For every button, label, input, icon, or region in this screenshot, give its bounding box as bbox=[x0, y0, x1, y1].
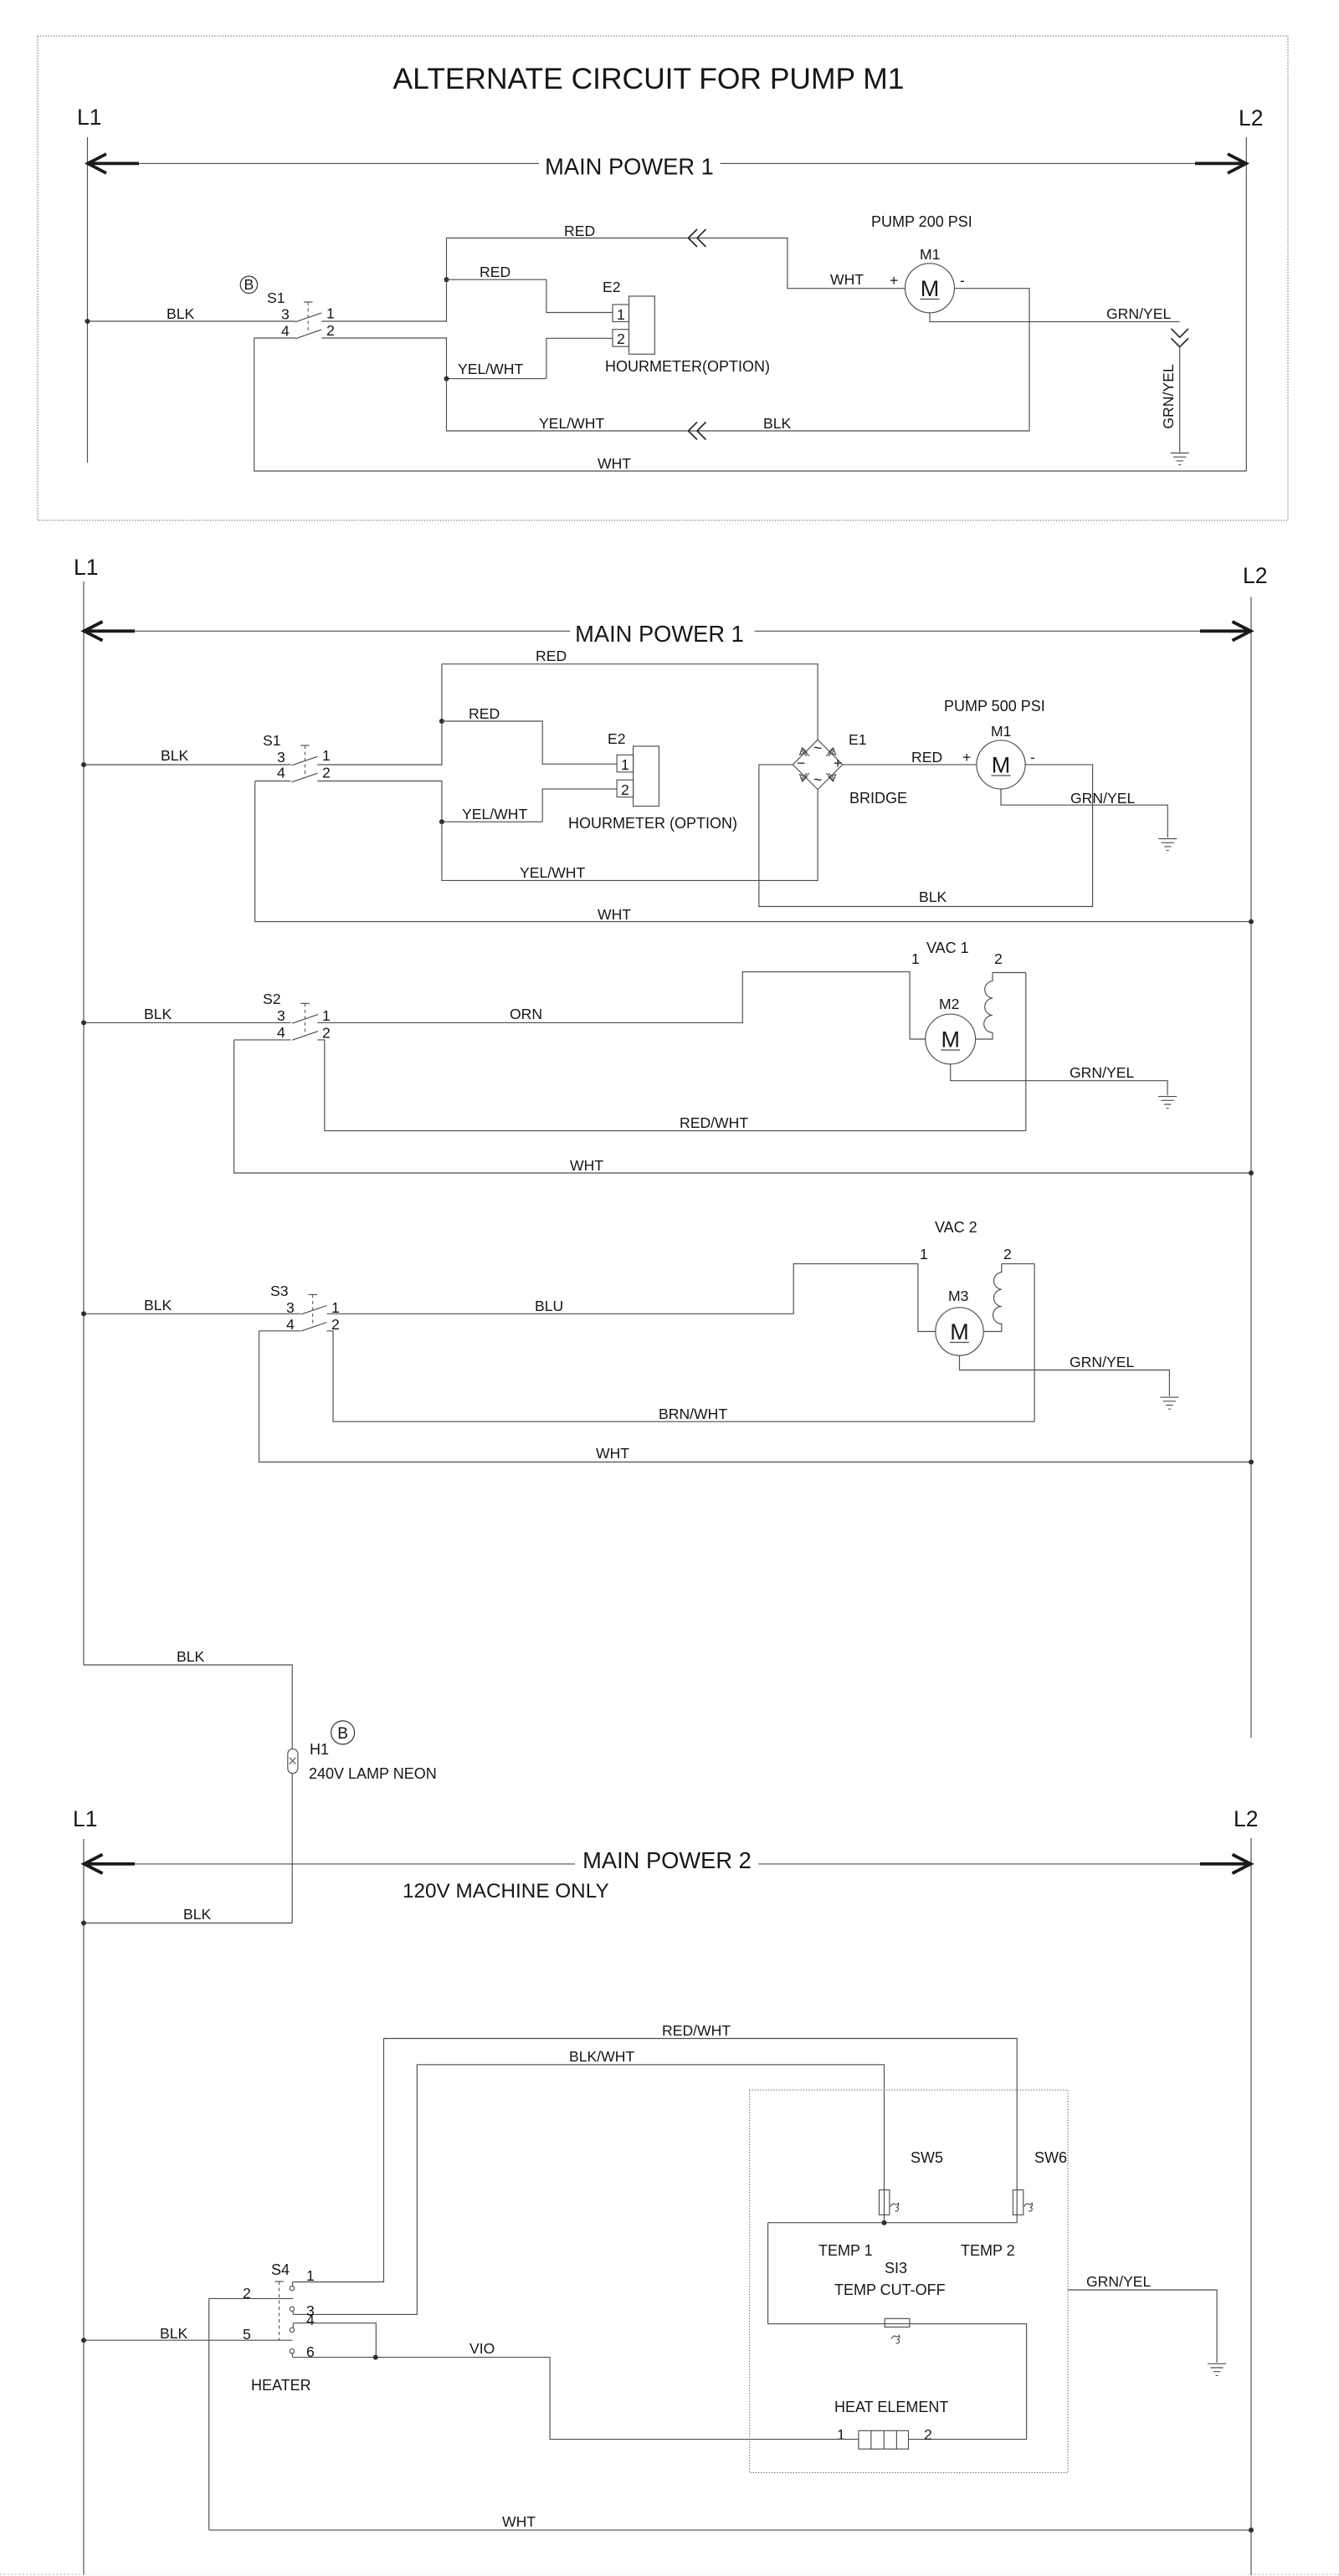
arrowhead right (top box main power) bbox=[1195, 161, 1246, 165]
wire S2 pin2 to RED/WHT run bbox=[317, 1040, 1026, 1131]
S4 contact 4 stub bbox=[292, 2323, 294, 2328]
wire left leg down to temp cut-off bbox=[768, 2223, 1027, 2440]
hourmeter E2 pin1 box (section 2) bbox=[617, 755, 634, 772]
svg-text:S3: S3 bbox=[270, 1283, 289, 1299]
wire S1 pin1 to riser (section 2) bbox=[317, 664, 442, 765]
svg-text:HEATER: HEATER bbox=[251, 2377, 311, 2394]
wire RED/WHT from S4 pin1 up and across to SW6 bbox=[293, 2039, 1018, 2282]
wire: MAIN POWER 1 arrow line (top box) bbox=[88, 162, 1247, 164]
fuse TEMP CUT-OFF body bbox=[885, 2318, 910, 2327]
wire WHT bottom run (VAC1) bbox=[234, 1040, 1251, 1173]
wire GRN/YEL drop to ground (top box) bbox=[1179, 347, 1181, 453]
svg-text:HEAT ELEMENT: HEAT ELEMENT bbox=[834, 2399, 948, 2415]
junction at L1 / BLK (section 2) bbox=[81, 762, 86, 767]
svg-text:E1: E1 bbox=[849, 731, 867, 748]
coil of M3 arcs bbox=[983, 1264, 1002, 1332]
svg-text:GRN/YEL: GRN/YEL bbox=[1086, 2273, 1151, 2290]
wire YEL/WHT lower run to bridge bottom (section 2) bbox=[442, 790, 818, 881]
S4 contact 6 stub bbox=[292, 2353, 294, 2358]
svg-text:ALTERNATE CIRCUIT FOR PUMP M1: ALTERNATE CIRCUIT FOR PUMP M1 bbox=[393, 62, 905, 95]
svg-text:M: M bbox=[992, 753, 1011, 778]
wire S1 pin1 to riser (top box) bbox=[321, 238, 446, 322]
wire: L2 bus vertical (sections 2-5) bbox=[1250, 597, 1252, 1739]
hourmeter E2 pin2 box (top box) bbox=[613, 330, 629, 347]
junction WHT / L2 (VAC1) bbox=[1249, 1170, 1254, 1175]
wire RED top run to motor plus (top box) bbox=[447, 238, 905, 289]
svg-text:240V LAMP NEON: 240V LAMP NEON bbox=[309, 1765, 437, 1782]
S2 link T-bar bbox=[300, 1002, 310, 1004]
svg-text:L2: L2 bbox=[1239, 105, 1263, 131]
svg-text:YEL/WHT: YEL/WHT bbox=[520, 864, 585, 881]
svg-text:SW5: SW5 bbox=[911, 2149, 943, 2166]
coil of M2 arcs bbox=[976, 973, 993, 1040]
bridge diode top-right bbox=[826, 748, 835, 756]
wire BLK from L1 to S1 pin3 (top box) bbox=[88, 320, 296, 322]
svg-text:1: 1 bbox=[326, 305, 335, 322]
svg-text:GRN/YEL: GRN/YEL bbox=[1070, 1064, 1134, 1081]
svg-text:YEL/WHT: YEL/WHT bbox=[458, 361, 523, 377]
svg-text:GRN/YEL: GRN/YEL bbox=[1070, 790, 1135, 807]
junction RED node (section 2) bbox=[439, 719, 444, 724]
svg-text:RED: RED bbox=[564, 223, 595, 239]
S3 link T-bar bbox=[309, 1293, 318, 1295]
svg-text:~: ~ bbox=[813, 740, 822, 756]
svg-text:M1: M1 bbox=[991, 723, 1011, 740]
wire: L1 bus vertical (top box) bbox=[87, 137, 89, 463]
wire left riser down to WHT bbox=[208, 2298, 210, 2530]
S2 blade 3-1 bbox=[292, 1015, 318, 1024]
circle B marker (lamp) bbox=[331, 1721, 355, 1744]
svg-text:WHT: WHT bbox=[596, 1445, 629, 1462]
S1 blade 3-1 (section 2) bbox=[292, 756, 318, 766]
svg-text:1: 1 bbox=[911, 950, 920, 967]
SW5 thermal squiggle bbox=[890, 2203, 899, 2211]
double chevron down on GRN/YEL drop (top box) bbox=[1172, 329, 1189, 347]
junction at L1 / BLK (VAC1) bbox=[81, 1020, 86, 1025]
S3 blade 3-1 bbox=[301, 1306, 327, 1315]
svg-text:BLK/WHT: BLK/WHT bbox=[569, 2048, 634, 2065]
wire S4 pin2 feed from left riser bbox=[209, 2297, 294, 2299]
arrowhead left (top box main power) bbox=[88, 161, 140, 165]
wire motor bottom to GRN/YEL (top box) bbox=[930, 313, 1180, 322]
wire S4 pin4 to VIO junction bbox=[293, 2323, 376, 2358]
svg-text:-: - bbox=[960, 272, 965, 289]
svg-text:L1: L1 bbox=[77, 105, 101, 130]
svg-text:E2: E2 bbox=[608, 730, 626, 747]
S1 link T-bar (section 2) bbox=[300, 745, 310, 746]
ground symbol (section 2) bbox=[1158, 839, 1177, 851]
wire hourmeter pin2 branch (section 2) bbox=[442, 789, 617, 822]
svg-text:RED: RED bbox=[480, 264, 510, 280]
svg-text:-: - bbox=[1030, 749, 1035, 766]
svg-text:1: 1 bbox=[322, 747, 331, 764]
svg-text:L2: L2 bbox=[1234, 1806, 1258, 1831]
junction at L1 / BLK (top box) bbox=[85, 319, 90, 324]
svg-text:BLK: BLK bbox=[763, 415, 792, 432]
svg-text:120V MACHINE ONLY: 120V MACHINE ONLY bbox=[403, 1880, 609, 1903]
junction VIO bbox=[373, 2355, 378, 2360]
svg-text:L1: L1 bbox=[73, 1806, 97, 1831]
S4 contact circle 6 bbox=[290, 2349, 294, 2353]
ground symbol (VAC1) bbox=[1158, 1097, 1177, 1109]
svg-text:2: 2 bbox=[994, 950, 1003, 967]
heat element body bbox=[859, 2430, 909, 2449]
svg-text:MAIN POWER 2: MAIN POWER 2 bbox=[582, 1847, 752, 1873]
arrowhead left (section 2 main power) bbox=[84, 629, 135, 632]
wire: MAIN POWER 2 arrow line bbox=[84, 1863, 1251, 1865]
motor M1 circle (top box) bbox=[905, 264, 955, 313]
wire S3 pin2 to BRN/WHT run bbox=[327, 1331, 1035, 1421]
svg-text:RED/WHT: RED/WHT bbox=[680, 1114, 748, 1131]
svg-text:3: 3 bbox=[281, 306, 290, 323]
svg-text:GRN/YEL: GRN/YEL bbox=[1160, 364, 1177, 428]
svg-text:B: B bbox=[244, 276, 254, 293]
fuse SW6 body bbox=[1013, 2190, 1023, 2215]
svg-text:MAIN POWER 1: MAIN POWER 1 bbox=[575, 621, 744, 647]
svg-text:RED: RED bbox=[911, 749, 942, 766]
svg-text:2: 2 bbox=[326, 322, 335, 339]
motor M3 circle bbox=[936, 1308, 983, 1355]
wire BLU from S3 pin1 to motor M3 pin1 riser bbox=[327, 1264, 936, 1332]
hourmeter E2 pin2 box (section 2) bbox=[617, 780, 634, 797]
wire hourmeter pin2 branch (top box) bbox=[447, 338, 613, 378]
junction WHT / L2 (VAC2) bbox=[1249, 1460, 1254, 1465]
dotted border frame of alternate-circuit box bbox=[38, 36, 1288, 520]
motor M2 circle bbox=[926, 1014, 976, 1064]
svg-text:S1: S1 bbox=[263, 732, 281, 749]
svg-text:WHT: WHT bbox=[598, 906, 631, 923]
S4 contact 1 stub bbox=[292, 2282, 294, 2287]
svg-text:S1: S1 bbox=[267, 289, 285, 306]
svg-text:WHT: WHT bbox=[598, 455, 631, 472]
svg-text:2: 2 bbox=[617, 330, 625, 347]
wire coil pin2 drop to RED/WHT bbox=[1025, 973, 1027, 1131]
svg-text:2: 2 bbox=[1003, 1246, 1012, 1262]
svg-text:VAC 1: VAC 1 bbox=[926, 940, 969, 956]
svg-text:HOURMETER (OPTION): HOURMETER (OPTION) bbox=[568, 815, 737, 832]
lamp H1 capsule bbox=[288, 1749, 298, 1773]
svg-text:MAIN POWER 1: MAIN POWER 1 bbox=[545, 154, 714, 180]
S1 blade 4-2 (section 2) bbox=[292, 773, 318, 782]
svg-text:1: 1 bbox=[306, 2267, 315, 2284]
svg-text:L1: L1 bbox=[74, 555, 98, 580]
wire: L2 bus vertical (bottom) bbox=[1250, 1838, 1252, 2575]
junction SW5 / TEMP bus bbox=[882, 2220, 887, 2225]
wire BLK from L1 to S3 bbox=[84, 1313, 300, 1314]
wire: L1 bus vertical (bottom) bbox=[83, 1839, 85, 2575]
hourmeter E2 body (section 2) bbox=[634, 746, 659, 807]
wire RED top run to bridge top (section 2) bbox=[442, 664, 818, 740]
junction at L1 / BLK (VAC2) bbox=[81, 1311, 86, 1316]
ground symbol (VAC2) bbox=[1160, 1397, 1178, 1409]
wire bridge right to motor plus (section 2) bbox=[843, 764, 977, 766]
wire BLK/WHT from S4 pin3 up and across to SW5 bbox=[293, 2065, 884, 2315]
S2 mechanical link dashed bbox=[304, 1003, 305, 1034]
svg-text:BLK: BLK bbox=[144, 1297, 172, 1314]
coil of M2: top wire pin2 bbox=[993, 972, 1026, 974]
svg-text:1: 1 bbox=[920, 1246, 928, 1262]
wire: L2 bus vertical (top box) bbox=[1245, 137, 1247, 471]
S1 mechanical link dashed (section 2) bbox=[304, 745, 305, 777]
svg-text:4: 4 bbox=[281, 323, 290, 340]
svg-text:2: 2 bbox=[621, 781, 629, 798]
junction RED node (top box) bbox=[444, 277, 449, 282]
wire: MAIN POWER 1 arrow line (section 2) bbox=[84, 630, 1251, 632]
svg-text:HOURMETER(OPTION): HOURMETER(OPTION) bbox=[605, 358, 770, 375]
wire YEL/WHT-BLK run from node to motor minus (top box) bbox=[447, 289, 1030, 431]
wire WHT bottom run (VAC2) bbox=[259, 1331, 1252, 1462]
hourmeter E2 pin1 box (top box) bbox=[613, 305, 629, 322]
svg-text:VAC 2: VAC 2 bbox=[935, 1219, 977, 1236]
bridge diode bottom-right bbox=[826, 773, 835, 781]
junction WHT / L2 (heater) bbox=[1249, 2527, 1254, 2532]
wire WHT bottom run (top box) bbox=[254, 338, 1247, 471]
svg-text:M1: M1 bbox=[920, 246, 940, 263]
svg-text:1: 1 bbox=[617, 306, 625, 323]
svg-text:GRN/YEL: GRN/YEL bbox=[1070, 1354, 1134, 1370]
svg-text:2: 2 bbox=[924, 2426, 932, 2443]
svg-text:BLK: BLK bbox=[177, 1648, 205, 1665]
svg-text:+: + bbox=[962, 749, 971, 766]
svg-text:2: 2 bbox=[322, 1025, 331, 1042]
svg-text:BRN/WHT: BRN/WHT bbox=[659, 1406, 727, 1422]
svg-text:2: 2 bbox=[322, 765, 331, 781]
svg-text:PUMP 500 PSI: PUMP 500 PSI bbox=[944, 698, 1045, 714]
svg-text:YEL/WHT: YEL/WHT bbox=[462, 806, 527, 822]
svg-text:4: 4 bbox=[286, 1316, 295, 1333]
S1 mechanical link dashed (top box) bbox=[307, 302, 309, 333]
S4 contact 3 stub bbox=[292, 2311, 294, 2314]
svg-text:BLK: BLK bbox=[144, 1006, 172, 1022]
svg-text:TEMP 2: TEMP 2 bbox=[961, 2242, 1015, 2259]
svg-text:YEL/WHT: YEL/WHT bbox=[539, 415, 604, 432]
wire M2 bottom to GRN/YEL ground bbox=[951, 1064, 1167, 1095]
svg-text:RED: RED bbox=[536, 648, 567, 664]
temp cut-off thermal squiggle bbox=[891, 2335, 900, 2343]
chevron crossing on RED wire (top box) bbox=[689, 229, 706, 247]
svg-text:BLU: BLU bbox=[535, 1298, 563, 1314]
S3 blade 4-2 bbox=[301, 1323, 327, 1332]
svg-text:M: M bbox=[950, 1319, 969, 1344]
S4 mechanical link dashed bbox=[279, 2282, 280, 2340]
svg-text:BLK: BLK bbox=[183, 1906, 212, 1923]
bridge rectifier E1 diamond (section 2) bbox=[793, 740, 842, 789]
wire TEMP bus between SW5/SW6 bottoms bbox=[768, 2222, 1018, 2224]
wire BLK from L1 to S1 (section 2) bbox=[84, 764, 291, 766]
S3 mechanical link dashed bbox=[312, 1294, 314, 1325]
coil of M3: top wire pin2 bbox=[1002, 1263, 1034, 1265]
svg-text:BLK: BLK bbox=[919, 889, 947, 905]
wire BLK from L1 top to lamp riser bbox=[84, 1665, 292, 1749]
svg-text:−: − bbox=[797, 755, 805, 771]
svg-text:M3: M3 bbox=[948, 1288, 969, 1304]
svg-text:TEMP CUT-OFF: TEMP CUT-OFF bbox=[834, 2282, 946, 2298]
wire VIO from S4 pin6 to heat element riser bbox=[293, 2358, 859, 2440]
svg-text:VIO: VIO bbox=[469, 2340, 495, 2357]
wire bridge left to BLK run to motor minus (section 2) bbox=[759, 765, 1093, 907]
wire ORN from S2 pin1 to motor M2 pin1 riser bbox=[317, 972, 926, 1039]
circle B marker (top box) bbox=[240, 276, 257, 293]
S1 link T-bar (top box) bbox=[304, 301, 313, 303]
hourmeter E2 body (top box) bbox=[629, 296, 655, 354]
svg-text:B: B bbox=[337, 1725, 348, 1743]
wire M3 bottom to GRN/YEL ground bbox=[960, 1355, 1170, 1396]
junction YEL/WHT node (section 2) bbox=[439, 819, 444, 824]
svg-text:BLK: BLK bbox=[161, 747, 189, 764]
junction at L1 / BLK lower lamp bbox=[81, 1921, 86, 1926]
svg-text:PUMP 200 PSI: PUMP 200 PSI bbox=[871, 213, 972, 230]
wire S1 pin2 to riser down (top box) bbox=[321, 338, 446, 379]
wire BLK from L1 to S4 pin5 bbox=[84, 2339, 293, 2341]
wire GRN/YEL from enclosure to ground (heater) bbox=[1068, 2290, 1217, 2363]
wire: L1 bus vertical (sections 2-4) bbox=[83, 581, 85, 1665]
svg-text:1: 1 bbox=[621, 756, 629, 773]
ground symbol (heater) bbox=[1208, 2363, 1226, 2375]
wire lamp bottom to BLK lower bbox=[291, 1774, 293, 1923]
svg-text:~: ~ bbox=[813, 771, 822, 788]
svg-text:GRN/YEL: GRN/YEL bbox=[1106, 305, 1171, 322]
bridge diode bottom-left bbox=[800, 773, 809, 781]
S4 contact circle 1 bbox=[290, 2286, 294, 2290]
S1 blade 4-2 (top box) bbox=[295, 330, 321, 339]
S2 blade 4-2 bbox=[292, 1032, 318, 1041]
S4 link T-bar bbox=[274, 2281, 284, 2282]
bridge diode top-left bbox=[800, 748, 809, 756]
svg-text:H1: H1 bbox=[310, 1741, 329, 1758]
svg-text:SW6: SW6 bbox=[1034, 2149, 1067, 2166]
svg-text:4: 4 bbox=[306, 2312, 315, 2328]
wire RED branch to hourmeter pin1 (section 2) bbox=[442, 721, 617, 764]
svg-text:E2: E2 bbox=[603, 279, 621, 295]
svg-text:BRIDGE: BRIDGE bbox=[849, 790, 907, 807]
svg-text:WHT: WHT bbox=[502, 2513, 536, 2530]
svg-text:4: 4 bbox=[277, 1024, 285, 1041]
arrowhead left (main power 2) bbox=[84, 1862, 135, 1866]
S4 contact circle 4 bbox=[290, 2328, 294, 2332]
svg-text:3: 3 bbox=[277, 749, 285, 766]
junction at L1 / BLK heater bbox=[81, 2338, 86, 2343]
S1 blade 3-1 (top box) bbox=[295, 313, 321, 322]
svg-text:4: 4 bbox=[277, 765, 285, 781]
ground symbol (top box) bbox=[1171, 453, 1189, 465]
svg-text:2: 2 bbox=[243, 2285, 251, 2302]
svg-text:2: 2 bbox=[331, 1316, 340, 1333]
svg-text:+: + bbox=[834, 755, 842, 771]
svg-text:BLK: BLK bbox=[167, 305, 195, 322]
wire WHT bottom run (section 2) bbox=[255, 781, 1251, 922]
lamp H1 cross bbox=[290, 1758, 296, 1764]
svg-text:3: 3 bbox=[277, 1007, 285, 1024]
svg-text:1: 1 bbox=[322, 1007, 331, 1024]
svg-text:WHT: WHT bbox=[830, 271, 864, 288]
svg-text:BLK: BLK bbox=[160, 2325, 188, 2342]
wire S1 pin4 feed (top box) bbox=[254, 337, 295, 339]
svg-text:M: M bbox=[921, 276, 940, 301]
wire BLK from L1 to S2 bbox=[84, 1022, 291, 1023]
wire WHT bottom run (heater) bbox=[209, 2529, 1251, 2531]
wire RED branch to hourmeter pin1 (top box) bbox=[447, 279, 613, 312]
faint page edge artifact bottom bbox=[0, 2573, 84, 2575]
svg-text:M: M bbox=[941, 1027, 960, 1052]
junction WHT / L2 (section 2) bbox=[1249, 919, 1254, 924]
wire coil pin2 drop to BRN/WHT bbox=[1034, 1264, 1035, 1422]
svg-text:WHT: WHT bbox=[570, 1157, 603, 1174]
svg-text:S4: S4 bbox=[271, 2261, 290, 2278]
svg-text:M2: M2 bbox=[939, 996, 959, 1012]
chevron crossing on YEL/WHT-BLK wire (top box) bbox=[689, 423, 706, 440]
dashed enclosure box (heater assembly) bbox=[750, 2090, 1068, 2473]
svg-text:L2: L2 bbox=[1243, 563, 1267, 588]
svg-text:+: + bbox=[890, 272, 898, 289]
arrowhead right (main power 2) bbox=[1200, 1862, 1251, 1866]
motor M1 circle (section 2) bbox=[977, 740, 1025, 789]
svg-text:RED: RED bbox=[469, 705, 500, 722]
svg-text:ORN: ORN bbox=[510, 1006, 542, 1022]
svg-text:S2: S2 bbox=[263, 991, 281, 1007]
wire S1 pin4 feed (section 2) bbox=[255, 781, 291, 782]
svg-text:SI3: SI3 bbox=[885, 2260, 907, 2276]
wire S1 pin2 to riser down (section 2) bbox=[317, 781, 442, 822]
junction YEL/WHT node (top box) bbox=[444, 376, 449, 382]
wire motor bottom to GRN/YEL ground (section 2) bbox=[1001, 789, 1167, 837]
svg-text:1: 1 bbox=[837, 2426, 845, 2443]
S4 contact circle 3 bbox=[290, 2307, 294, 2311]
SW6 thermal squiggle bbox=[1024, 2203, 1033, 2211]
arrowhead right (section 2 main power) bbox=[1200, 629, 1251, 632]
fuse SW5 body bbox=[880, 2190, 890, 2215]
svg-text:TEMP 1: TEMP 1 bbox=[818, 2242, 873, 2259]
wire BLK from L1 to lamp riser (lower) bbox=[84, 1923, 292, 1924]
svg-text:RED/WHT: RED/WHT bbox=[662, 2022, 731, 2039]
